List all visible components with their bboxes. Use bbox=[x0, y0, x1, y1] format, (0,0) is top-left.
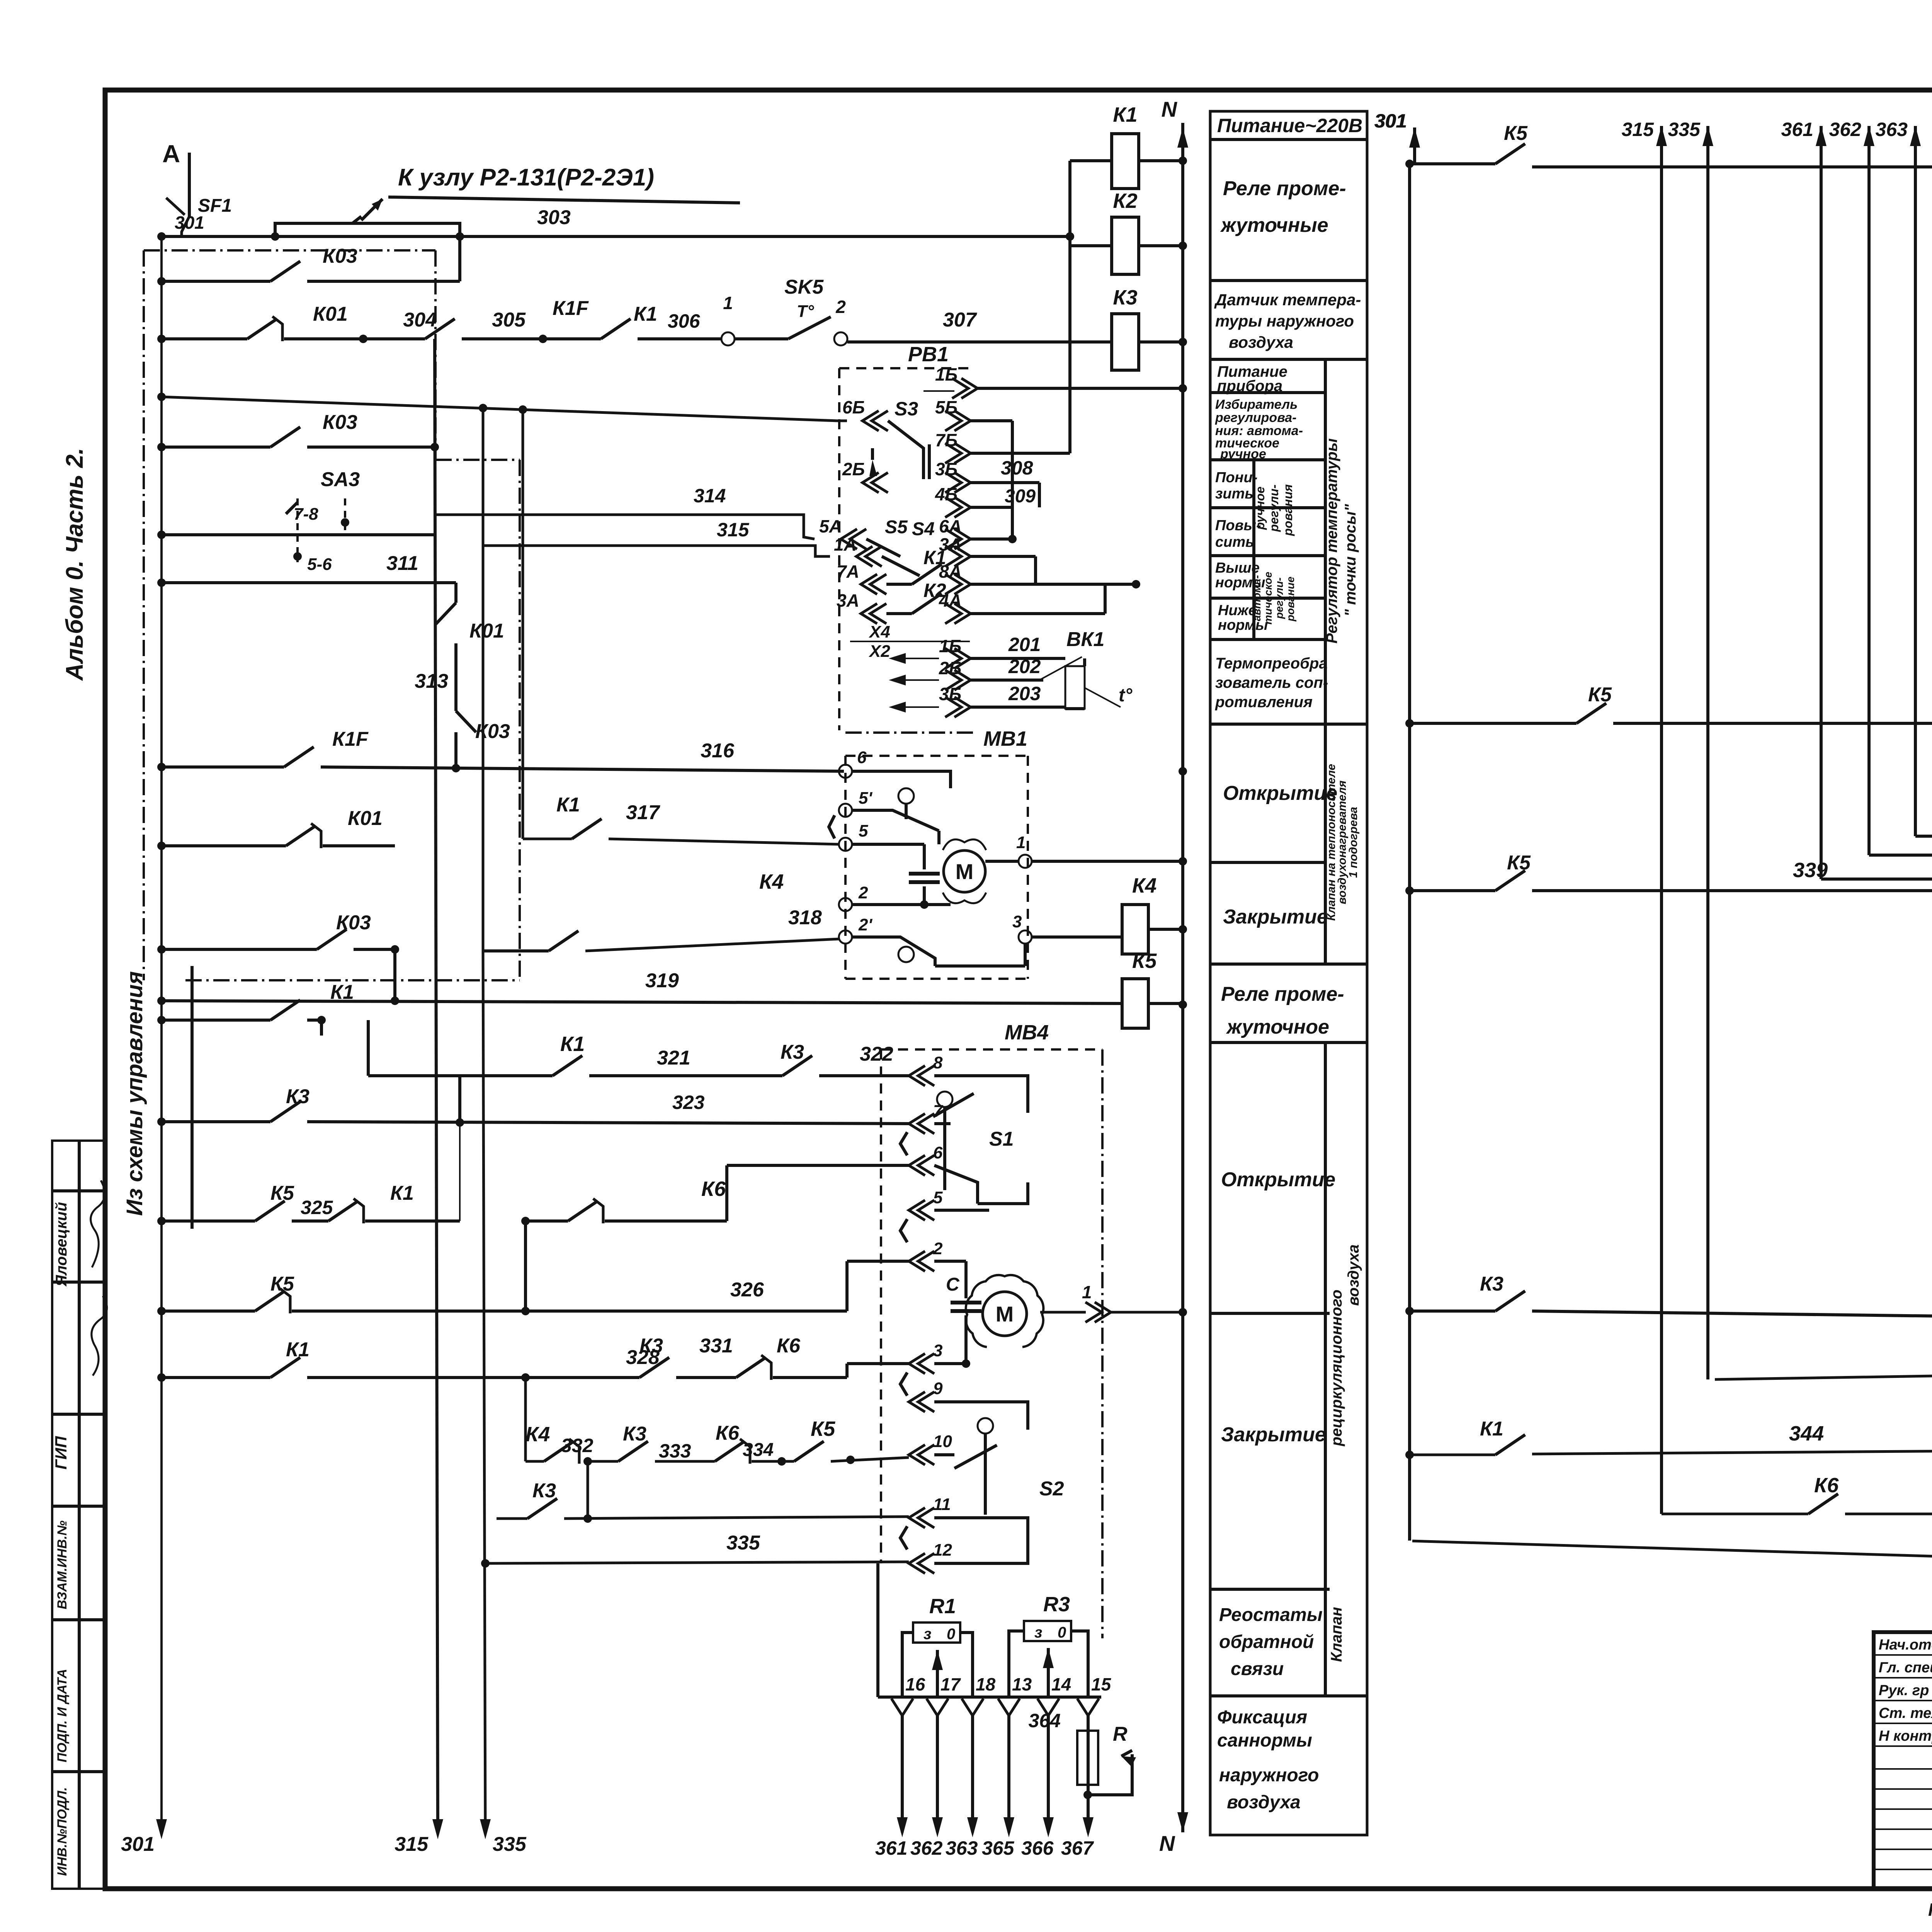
svg-text:Из схемы управления: Из схемы управления bbox=[122, 971, 147, 1216]
svg-text:344: 344 bbox=[1789, 1422, 1824, 1445]
svg-text:К6: К6 bbox=[716, 1422, 740, 1444]
contact К6 subrung y3160 bbox=[526, 1219, 568, 1223]
svg-text:7: 7 bbox=[933, 1102, 944, 1121]
МВ4 terminal 5 bbox=[909, 1200, 925, 1220]
svg-text:Яловецкий: Яловецкий bbox=[53, 1202, 70, 1287]
МВ1 terminal 2 bbox=[839, 898, 852, 911]
svg-text:Т°: Т° bbox=[797, 302, 814, 321]
svg-text:К1: К1 bbox=[1480, 1418, 1503, 1440]
МВ1 terminal 5 bbox=[839, 838, 852, 851]
svg-text:306: 306 bbox=[668, 310, 701, 332]
МВ4 terminal 3 bbox=[909, 1354, 925, 1374]
svg-text:К1: К1 bbox=[390, 1182, 414, 1204]
svg-text:К3: К3 bbox=[286, 1085, 310, 1108]
svg-text:ротивления: ротивления bbox=[1215, 694, 1313, 711]
breaker SF1 bbox=[166, 198, 185, 215]
svg-text:К5: К5 bbox=[270, 1273, 294, 1295]
svg-text:5': 5' bbox=[859, 789, 872, 808]
bus bottom arrow and label 301 bbox=[156, 1819, 167, 1839]
right bus 301 vertical bbox=[1408, 164, 1411, 1541]
rung y1027 plain bbox=[162, 397, 837, 421]
МВ4 motor bbox=[966, 1275, 1044, 1347]
svg-text:301: 301 bbox=[1374, 110, 1406, 132]
svg-text:Закрытие: Закрытие bbox=[1223, 906, 1328, 928]
РВ1 arrow 2Б left bbox=[862, 473, 879, 493]
svg-text:К узлу Р2-131(Р2-2Э1): К узлу Р2-131(Р2-2Э1) bbox=[398, 164, 654, 191]
rung К1 y2640 bbox=[162, 1019, 270, 1022]
svg-text:ВЗАМ.ИНВ.№: ВЗАМ.ИНВ.№ bbox=[55, 1520, 70, 1609]
terminal 1 of SK5 bbox=[721, 332, 735, 345]
svg-text:13: 13 bbox=[1012, 1674, 1032, 1694]
МВ1 terminal 2' bbox=[839, 930, 852, 944]
svg-text:304: 304 bbox=[403, 309, 437, 331]
contact К1F bbox=[425, 319, 455, 339]
svg-text:11: 11 bbox=[933, 1495, 951, 1514]
svg-text:325: 325 bbox=[301, 1197, 333, 1218]
terminal arrow 16 bbox=[891, 1699, 913, 1716]
svg-text:К01: К01 bbox=[348, 807, 383, 830]
svg-text:К1: К1 bbox=[1113, 103, 1137, 126]
svg-text:301: 301 bbox=[121, 1833, 155, 1855]
svg-text:Реостаты: Реостаты bbox=[1219, 1605, 1323, 1625]
rung К5 y1872 right bbox=[1410, 722, 1577, 725]
svg-text:361: 361 bbox=[875, 1837, 907, 1859]
panel boundary dash-dot bbox=[143, 250, 145, 980]
МВ4 right dash-dot line bbox=[1101, 1049, 1104, 1638]
svg-text:R1: R1 bbox=[929, 1595, 956, 1618]
svg-text:Клапан: Клапан bbox=[1328, 1607, 1345, 1662]
contact К4 bbox=[544, 1441, 574, 1461]
МВ4 capacitor C bbox=[964, 1261, 968, 1298]
svg-text:рование: рование bbox=[1284, 577, 1296, 622]
rung SA3 y1384 bbox=[162, 533, 435, 536]
svg-text:обратной: обратной bbox=[1219, 1632, 1314, 1652]
svg-text:Пони-: Пони- bbox=[1215, 469, 1257, 486]
svg-text:М: М bbox=[956, 859, 974, 884]
svg-text:К3: К3 bbox=[1480, 1273, 1503, 1295]
svg-text:К1: К1 bbox=[286, 1338, 310, 1361]
МВ4 terminal 10 bbox=[909, 1445, 925, 1465]
relay coil К1 bbox=[1112, 134, 1139, 189]
РВ1 arrow 1А left / 3А right bbox=[856, 546, 872, 566]
svg-text:К1F: К1F bbox=[332, 728, 369, 750]
underline of Из схемы управления bbox=[190, 966, 194, 1229]
svg-text:К01: К01 bbox=[313, 303, 348, 325]
svg-text:Реле проме-: Реле проме- bbox=[1223, 177, 1346, 200]
svg-text:12: 12 bbox=[933, 1541, 952, 1560]
МВ1 terminal 1 output bbox=[1019, 855, 1032, 868]
svg-text:3Б: 3Б bbox=[935, 459, 957, 479]
controller РВ1 dashed enclosure bbox=[838, 368, 840, 730]
vertical wire 315 right schematic bbox=[1656, 126, 1667, 146]
svg-text:314: 314 bbox=[694, 485, 726, 507]
svg-text:Датчик темпера-: Датчик темпера- bbox=[1214, 291, 1361, 309]
svg-text:К6: К6 bbox=[777, 1335, 801, 1357]
vertical wire 361 right schematic bbox=[1816, 126, 1827, 146]
svg-text:ручное: ручное bbox=[1253, 486, 1267, 530]
МВ1 motor bbox=[944, 850, 985, 892]
terminal arrow 15 bbox=[1077, 1699, 1099, 1716]
svg-text:К5: К5 bbox=[1507, 852, 1531, 874]
svg-text:335: 335 bbox=[1668, 119, 1701, 140]
contact К4 318 subrung bbox=[483, 949, 549, 952]
rung К1 321 К3 322 y2784 bbox=[368, 1074, 553, 1077]
rung К1F 316 y1985 bbox=[162, 765, 284, 769]
svg-text:5-6: 5-6 bbox=[307, 555, 332, 574]
svg-text:S3: S3 bbox=[895, 398, 918, 420]
svg-text:воздуха: воздуха bbox=[1345, 1245, 1362, 1306]
neutral line N left bbox=[1181, 123, 1184, 1832]
contact К3 331 К6 subrung bbox=[639, 1357, 669, 1378]
svg-text:365: 365 bbox=[982, 1837, 1015, 1859]
temperature switch SK5 bbox=[735, 337, 788, 340]
svg-text:МВ4: МВ4 bbox=[1005, 1021, 1049, 1044]
terminal arrows row 16 17 18 13 14 15 bbox=[878, 1696, 1101, 1699]
vertical wire 335 to bottom bbox=[483, 951, 485, 1832]
wire 335 elbow y3570 bbox=[1715, 1373, 1932, 1379]
svg-text:К1F: К1F bbox=[553, 297, 589, 320]
node 305 bbox=[539, 335, 547, 343]
svg-text:9: 9 bbox=[933, 1379, 943, 1398]
svg-text:Выше: Выше bbox=[1215, 560, 1260, 576]
svg-text:201: 201 bbox=[1008, 634, 1041, 655]
svg-text:зить: зить bbox=[1215, 486, 1253, 502]
subcolumn divider regulator section bbox=[1324, 359, 1327, 724]
svg-text:316: 316 bbox=[701, 740, 735, 762]
МВ4 terminal 9 bbox=[909, 1392, 925, 1412]
svg-text:t°: t° bbox=[1119, 685, 1133, 706]
svg-text:К3: К3 bbox=[532, 1480, 556, 1502]
svg-text:Избиратель: Избиратель bbox=[1215, 397, 1298, 412]
svg-text:Х4: Х4 bbox=[868, 622, 890, 641]
svg-text:жуточное: жуточное bbox=[1226, 1016, 1329, 1038]
svg-text:К1: К1 bbox=[330, 981, 354, 1003]
node 334 bbox=[777, 1457, 786, 1466]
svg-text:2: 2 bbox=[858, 883, 868, 902]
РВ1 arrow 7Б bbox=[954, 443, 971, 463]
svg-text:К5: К5 bbox=[1504, 122, 1528, 145]
svg-text:323: 323 bbox=[672, 1092, 705, 1113]
svg-text:ПОДП. И ДАТА: ПОДП. И ДАТА bbox=[55, 1669, 70, 1762]
svg-text:К6: К6 bbox=[1814, 1474, 1839, 1497]
stamp signature squiggle bbox=[92, 1296, 107, 1376]
svg-text:з: з bbox=[1034, 1624, 1042, 1641]
underline of K uzlu label bbox=[388, 197, 740, 203]
svg-text:регули-: регули- bbox=[1273, 577, 1285, 619]
stair wire 361 to КВ2 term7 bbox=[1821, 879, 1932, 914]
МВ1 terminal 5' bbox=[839, 804, 852, 817]
svg-text:301: 301 bbox=[175, 213, 204, 233]
phase lead into SF1 bbox=[188, 153, 191, 216]
svg-text:связи: связи bbox=[1231, 1659, 1284, 1679]
contact К03 vertical bbox=[456, 711, 476, 732]
svg-text:Регулятор температуры: Регулятор температуры bbox=[1323, 438, 1340, 643]
svg-text:К6: К6 bbox=[701, 1177, 726, 1201]
svg-text:К1: К1 bbox=[634, 303, 657, 325]
svg-text:6Б: 6Б bbox=[842, 397, 865, 417]
svg-text:К01: К01 bbox=[469, 620, 504, 642]
svg-text:туры наружного: туры наружного bbox=[1215, 312, 1354, 330]
svg-text:1 подогрева: 1 подогрева bbox=[1347, 807, 1360, 878]
contact К3 on rung 3930 bbox=[527, 1498, 557, 1519]
rung К01 y2189 bbox=[162, 844, 286, 847]
contact К03 rung y1157 bbox=[162, 446, 270, 449]
svg-text:Альбом 0. Часть 2.: Альбом 0. Часть 2. bbox=[61, 448, 88, 681]
svg-text:5: 5 bbox=[859, 821, 868, 840]
svg-text:1: 1 bbox=[1016, 833, 1026, 852]
wire 307 bbox=[847, 340, 1112, 344]
vertical wire 363 right schematic bbox=[1910, 126, 1921, 146]
svg-text:1Б: 1Б bbox=[935, 364, 957, 384]
svg-text:18: 18 bbox=[976, 1674, 996, 1694]
svg-text:367: 367 bbox=[1061, 1837, 1094, 1859]
svg-text:Термопреобра: Термопреобра bbox=[1215, 655, 1328, 672]
svg-text:М: М bbox=[996, 1302, 1014, 1326]
svg-text:362: 362 bbox=[1829, 119, 1862, 140]
svg-text:ВК1: ВК1 bbox=[1066, 628, 1104, 651]
svg-text:331: 331 bbox=[699, 1335, 733, 1357]
svg-text:S5: S5 bbox=[885, 517, 908, 537]
svg-text:2Б: 2Б bbox=[939, 658, 961, 678]
svg-text:14: 14 bbox=[1051, 1674, 1071, 1694]
svg-text:7-8: 7-8 bbox=[294, 505, 318, 524]
rung 335 y4046 bbox=[485, 1562, 909, 1563]
МВ1 capacitor bbox=[923, 844, 926, 869]
РВ1 arrow 3Б 203 bbox=[954, 697, 971, 717]
wire 301-303 top rung bbox=[162, 235, 1070, 238]
svg-text:6: 6 bbox=[933, 1143, 943, 1162]
rung К1 344 y3760 bbox=[1410, 1454, 1495, 1456]
svg-text:7А: 7А bbox=[837, 561, 859, 582]
svg-text:308: 308 bbox=[1001, 457, 1033, 479]
terminal 2 of SK5 bbox=[834, 332, 847, 345]
svg-text:Гл. спец: Гл. спец bbox=[1879, 1660, 1932, 1676]
rung К3 323 y2903 bbox=[162, 1120, 270, 1123]
svg-text:з: з bbox=[923, 1626, 931, 1643]
rung 304/305/306/307 with К01 К1F К1 SK5 bbox=[162, 337, 247, 340]
svg-text:рования: рования bbox=[1281, 484, 1295, 536]
svg-text:317: 317 bbox=[626, 801, 660, 824]
svg-text:10: 10 bbox=[933, 1432, 952, 1451]
svg-text:315: 315 bbox=[717, 519, 750, 541]
node 332 bbox=[583, 1457, 592, 1466]
svg-text:366: 366 bbox=[1021, 1837, 1054, 1859]
МВ4 terminal 2 bbox=[909, 1251, 925, 1271]
contact К5 on rung 3782 bbox=[794, 1441, 824, 1461]
РВ1 arrow 2Б 202 bbox=[954, 670, 971, 690]
svg-text:К4: К4 bbox=[526, 1423, 550, 1446]
wire 315 into РВ1 bbox=[483, 546, 830, 556]
svg-text:Питание~220В: Питание~220В bbox=[1217, 115, 1362, 136]
svg-text:воздуха: воздуха bbox=[1229, 333, 1293, 351]
svg-text:313: 313 bbox=[415, 670, 448, 692]
svg-text:РВ1: РВ1 bbox=[908, 343, 949, 366]
svg-text:0: 0 bbox=[1058, 1624, 1066, 1641]
РВ1 arrow 3Б 308 bbox=[954, 473, 971, 493]
contact К03 rung y728 bbox=[162, 280, 270, 283]
relay coil К4 right bbox=[1122, 905, 1148, 954]
wire 314 into РВ1 bbox=[435, 515, 815, 539]
svg-text:315: 315 bbox=[1622, 119, 1655, 140]
svg-text:2Б: 2Б bbox=[842, 459, 865, 479]
svg-text:SK5: SK5 bbox=[784, 276, 824, 298]
svg-text:" точки росы": " точки росы" bbox=[1342, 503, 1359, 616]
svg-text:2: 2 bbox=[835, 297, 846, 317]
title block outer frame bbox=[1874, 1632, 1932, 1889]
svg-text:S1: S1 bbox=[989, 1128, 1014, 1150]
svg-text:305: 305 bbox=[492, 309, 526, 331]
svg-text:Рук. гр: Рук. гр bbox=[1879, 1682, 1929, 1699]
МВ4 terminal 8 bbox=[909, 1066, 925, 1086]
svg-text:8: 8 bbox=[933, 1053, 943, 1072]
contact К01 vertical bbox=[436, 603, 456, 624]
svg-text:332: 332 bbox=[561, 1435, 594, 1456]
contact К3 on rung 3782 bbox=[618, 1441, 648, 1461]
svg-text:6: 6 bbox=[857, 748, 867, 767]
contact К01 bbox=[247, 319, 277, 339]
svg-text:ручное: ручное bbox=[1220, 447, 1266, 461]
svg-text:17: 17 bbox=[940, 1674, 961, 1694]
svg-text:сить: сить bbox=[1215, 534, 1254, 550]
svg-text:К2: К2 bbox=[923, 580, 946, 601]
svg-text:К3: К3 bbox=[1113, 286, 1137, 309]
svg-text:202: 202 bbox=[1008, 656, 1041, 677]
МВ1 limit switch lower bbox=[898, 947, 914, 962]
rung К03 y2457 bbox=[162, 948, 317, 951]
valve drive МВ4 dashed box bbox=[880, 1049, 882, 1563]
МВ4 switch S2 bbox=[978, 1418, 993, 1434]
svg-text:К3: К3 bbox=[781, 1041, 804, 1063]
rung К5 336 to КВ1 y424 bbox=[1410, 162, 1495, 165]
svg-text:С: С bbox=[946, 1274, 960, 1295]
svg-text:2': 2' bbox=[858, 915, 872, 934]
vertical wire 315 to bottom bbox=[435, 339, 438, 1832]
РВ1 output arrow 1Б to N bbox=[961, 378, 978, 398]
МВ1 terminal 3 output bbox=[1019, 930, 1032, 944]
svg-text:4Б: 4Б bbox=[935, 484, 957, 504]
svg-text:15: 15 bbox=[1091, 1674, 1112, 1694]
svg-text:S2: S2 bbox=[1039, 1478, 1064, 1500]
svg-text:R: R bbox=[1113, 1723, 1128, 1745]
svg-text:Копировал: Дж—: Копировал: Дж— bbox=[1928, 1900, 1932, 1920]
svg-text:К03: К03 bbox=[323, 245, 357, 267]
svg-text:361: 361 bbox=[1781, 119, 1813, 140]
МВ4 terminal 7 bbox=[909, 1114, 925, 1134]
svg-text:335: 335 bbox=[493, 1833, 527, 1855]
relay coil К2 bbox=[1112, 217, 1139, 274]
node 304 bbox=[359, 335, 367, 343]
svg-text:3: 3 bbox=[933, 1341, 942, 1360]
svg-text:326: 326 bbox=[730, 1279, 764, 1301]
feeder vertical to coils bbox=[1068, 161, 1071, 453]
svg-text:Открытие: Открытие bbox=[1221, 1168, 1335, 1191]
МВ4 switch S1 bbox=[937, 1092, 952, 1107]
svg-text:1А: 1А bbox=[834, 534, 857, 554]
svg-text:16: 16 bbox=[905, 1674, 925, 1694]
svg-text:К5: К5 bbox=[270, 1182, 294, 1204]
svg-text:362: 362 bbox=[910, 1837, 943, 1859]
svg-text:3А: 3А bbox=[837, 590, 859, 611]
svg-text:тическое: тическое bbox=[1262, 572, 1274, 625]
svg-text:автома-: автома- bbox=[1251, 575, 1263, 621]
РВ1 arrow 1Б 201 to ВК1 bbox=[954, 648, 971, 668]
svg-text:К4: К4 bbox=[1132, 874, 1156, 897]
svg-text:N: N bbox=[1162, 97, 1178, 121]
left power bus 301 vertical bbox=[160, 236, 163, 1832]
svg-text:0: 0 bbox=[947, 1626, 955, 1643]
terminal arrow 17 bbox=[927, 1699, 948, 1716]
svg-text:К5: К5 bbox=[1132, 949, 1157, 973]
svg-text:К03: К03 bbox=[323, 411, 357, 434]
svg-text:К2: К2 bbox=[1113, 189, 1137, 213]
svg-text:307: 307 bbox=[943, 309, 977, 331]
svg-text:S4: S4 bbox=[912, 519, 935, 539]
rung to terminal 11 y3930 bbox=[497, 1517, 527, 1520]
rung 311 y1508 bbox=[162, 581, 364, 584]
svg-text:SА3: SА3 bbox=[321, 468, 360, 491]
terminal arrow 14 bbox=[1037, 1699, 1059, 1716]
svg-text:К3: К3 bbox=[623, 1423, 646, 1445]
svg-text:Н контр.: Н контр. bbox=[1879, 1728, 1932, 1744]
svg-text:1Б: 1Б bbox=[939, 636, 961, 656]
svg-text:Х2: Х2 bbox=[868, 642, 890, 661]
contact К1 317 subrung bbox=[523, 838, 572, 840]
svg-text:МВ1: МВ1 bbox=[983, 727, 1027, 750]
svg-text:335: 335 bbox=[726, 1532, 760, 1554]
rung 319 y2590 bbox=[162, 1001, 1122, 1003]
svg-text:311: 311 bbox=[386, 552, 418, 575]
bracket to 303 bus bbox=[275, 223, 460, 236]
svg-text:К03: К03 bbox=[475, 720, 510, 743]
svg-text:Реле проме-: Реле проме- bbox=[1221, 983, 1344, 1005]
middle annotation column frame bbox=[1210, 111, 1367, 1835]
svg-text:7Б: 7Б bbox=[935, 430, 957, 450]
svg-text:Нач.отд: Нач.отд bbox=[1879, 1637, 1932, 1653]
terminal arrow 18 bbox=[962, 1699, 983, 1716]
bottom arrows 361 362 363 365 366 367 bbox=[897, 1817, 908, 1837]
left stamp boxes column bbox=[52, 1141, 105, 1889]
РВ1 arrow 7А К1 8А bbox=[861, 574, 877, 594]
vertical chain 311->К01->313->К03 bbox=[454, 583, 457, 603]
svg-text:К03: К03 bbox=[336, 912, 371, 934]
svg-text:Открытие: Открытие bbox=[1223, 782, 1337, 804]
МВ4 terminal 11 bbox=[909, 1508, 925, 1528]
svg-text:А: А bbox=[162, 140, 180, 168]
contact К1 bbox=[601, 319, 631, 339]
МВ1 limit switch upper bbox=[898, 788, 914, 804]
svg-text:2: 2 bbox=[933, 1239, 943, 1258]
svg-text:жуточные: жуточные bbox=[1220, 214, 1328, 236]
svg-text:N: N bbox=[1159, 1831, 1175, 1855]
РВ1 arrow 3А К2 4А bbox=[861, 604, 877, 624]
svg-text:Закрытие: Закрытие bbox=[1221, 1423, 1326, 1446]
svg-text:регулирова-: регулирова- bbox=[1215, 410, 1297, 425]
svg-text:ГИП: ГИП bbox=[52, 1436, 70, 1469]
svg-text:319: 319 bbox=[645, 969, 679, 992]
svg-text:203: 203 bbox=[1008, 683, 1041, 704]
МВ1 terminal 6 bbox=[839, 765, 852, 778]
svg-text:318: 318 bbox=[788, 906, 822, 929]
svg-text:R3: R3 bbox=[1043, 1593, 1070, 1616]
svg-text:К3: К3 bbox=[639, 1335, 663, 1357]
svg-text:рециркуляционного: рециркуляционного bbox=[1328, 1289, 1345, 1446]
svg-text:364: 364 bbox=[1029, 1710, 1061, 1731]
vertical wire 335 right schematic bbox=[1702, 126, 1713, 146]
bottom return wire bbox=[1412, 1541, 1932, 1571]
stair wire 363 to КВ2 term9 bbox=[1915, 836, 1932, 914]
callout arrow to К узлу bbox=[361, 199, 383, 220]
svg-text:363: 363 bbox=[1876, 119, 1908, 140]
